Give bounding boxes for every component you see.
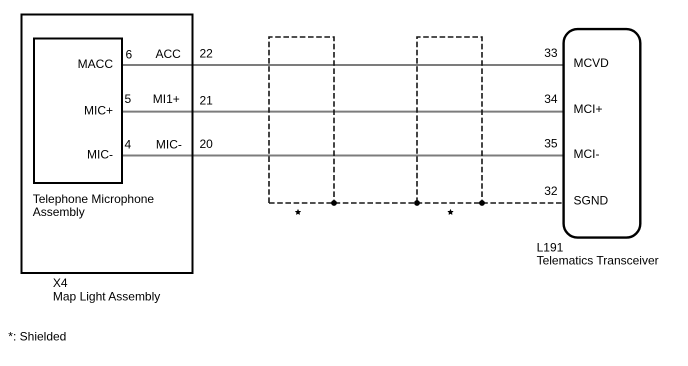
wire ACC pin6-to-pin33 — [122, 64, 564, 66]
svg-text:32: 32 — [544, 184, 558, 198]
svg-text:22: 22 — [200, 47, 214, 61]
junction dot at shield box1 right — [331, 200, 337, 206]
svg-text:Map Light Assembly: Map Light Assembly — [53, 290, 160, 304]
svg-text:X4: X4 — [53, 276, 68, 290]
svg-text:L191: L191 — [537, 240, 564, 254]
svg-text:34: 34 — [544, 92, 558, 106]
svg-text:Assembly: Assembly — [33, 205, 85, 219]
connector X4 outer box (Map Light Assembly) — [22, 15, 193, 274]
svg-text:5: 5 — [125, 92, 132, 106]
svg-text:Telematics Transceiver: Telematics Transceiver — [537, 254, 659, 268]
shield box 2 (dashed) — [417, 37, 482, 203]
svg-text:SGND: SGND — [574, 193, 609, 207]
asterisk marker 2 — [448, 210, 453, 215]
svg-text:MCVD: MCVD — [574, 56, 610, 70]
svg-text:MIC-: MIC- — [87, 148, 113, 162]
svg-text:33: 33 — [544, 46, 558, 60]
junction dot at shield box2 left — [414, 200, 420, 206]
shield drain wire (dashed) to pin32 SGND — [269, 202, 564, 204]
connector L191 rounded box (Telematics Transceiver) — [564, 29, 641, 238]
svg-text:4: 4 — [125, 138, 132, 152]
svg-text:35: 35 — [544, 137, 558, 151]
svg-text:MCI-: MCI- — [574, 147, 600, 161]
wire MIC- pin4-to-pin35 — [122, 155, 564, 157]
svg-text:ACC: ACC — [156, 47, 182, 61]
shield box 1 (dashed) — [269, 37, 334, 203]
junction dot at shield box2 right — [479, 200, 485, 206]
svg-text:MIC-: MIC- — [156, 138, 182, 152]
svg-text:MIC+: MIC+ — [84, 104, 113, 118]
svg-text:*: Shielded: *: Shielded — [8, 330, 66, 344]
svg-text:20: 20 — [200, 137, 214, 151]
wire MI1+ pin5-to-pin34 — [122, 111, 564, 113]
Telephone Microphone Assembly inner box — [34, 39, 122, 184]
asterisk marker 1 — [296, 210, 301, 215]
svg-text:6: 6 — [126, 47, 133, 61]
svg-text:MACC: MACC — [78, 57, 114, 71]
svg-text:21: 21 — [200, 94, 214, 108]
svg-text:MI1+: MI1+ — [153, 92, 180, 106]
svg-text:Telephone Microphone: Telephone Microphone — [33, 192, 155, 206]
svg-text:MCI+: MCI+ — [574, 102, 603, 116]
